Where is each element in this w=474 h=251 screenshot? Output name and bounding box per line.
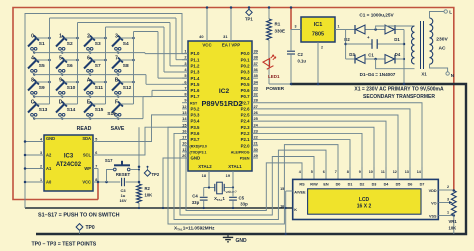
svg-text:R/W: R/W: [310, 182, 318, 186]
wire keypad row 4: [34, 97, 188, 119]
wire A/VEE to bottom bus: [285, 191, 287, 235]
node XTAL2: [204, 186, 215, 188]
svg-text:K: K: [294, 208, 297, 212]
svg-text:B: B: [115, 78, 119, 84]
svg-text:C5: C5: [239, 196, 245, 201]
wire S16 bottom contact to row 4: [116, 116, 119, 120]
wire S2 top contact to column 2: [64, 37, 78, 40]
svg-text:37: 37: [254, 61, 258, 66]
wire keypad row 2: [34, 75, 188, 85]
IC2 pin 27 P2.6: [241, 104, 258, 112]
wire S12 top contact to column 4: [120, 81, 134, 84]
svg-text:7: 7: [184, 85, 186, 90]
svg-text:TP1: TP1: [245, 17, 253, 22]
svg-text:S1–S17 = PUSH TO ON SWITCH: S1–S17 = PUSH TO ON SWITCH: [38, 212, 120, 218]
capacitor C3 1u 16V electrolytic: [119, 178, 139, 203]
svg-text:S15: S15: [95, 107, 104, 113]
IC2 pin 17 P3.7: [182, 135, 200, 143]
svg-text:S1: S1: [39, 41, 45, 47]
IC2 pin 14 P3.4: [182, 116, 200, 124]
svg-text:10: 10: [369, 170, 373, 174]
switch S3 push-to-on, key 2: [84, 34, 101, 51]
svg-text:S3: S3: [95, 41, 101, 47]
wire S4 top contact to column 4: [120, 37, 134, 40]
resistor R2 10K: [137, 184, 153, 209]
switch S9 push-to-on, key 8: [28, 78, 45, 95]
svg-text:S8: S8: [123, 63, 129, 69]
svg-text:6: 6: [323, 170, 325, 174]
IC2 pin 12 P3.2: [182, 104, 200, 112]
svg-text:12: 12: [393, 170, 397, 174]
svg-text:S12: S12: [123, 85, 132, 91]
svg-text:30: 30: [254, 147, 258, 152]
svg-text:16 X 2: 16 X 2: [357, 203, 372, 209]
svg-text:C1 = 1000u,25V: C1 = 1000u,25V: [359, 13, 394, 18]
wire bridge top row: [346, 28, 404, 31]
svg-text:GND: GND: [191, 156, 201, 161]
svg-text:SAVE: SAVE: [111, 126, 125, 132]
wire S10 bottom contact to row 3: [60, 94, 63, 98]
switch S10 push-to-on, key 9: [56, 78, 76, 95]
svg-text:GND: GND: [236, 238, 248, 244]
IC2 pin 25 P2.4: [241, 116, 259, 124]
switch S15 push-to-on, key E: [84, 100, 104, 117]
LCD pin 3 VO wire (wiper): [431, 198, 453, 206]
switch S5 push-to-on, key 4: [28, 56, 45, 73]
wire S5 top contact to column 1: [36, 59, 50, 62]
wire S8 bottom contact to row 2: [116, 72, 119, 76]
crystal XTAL1 11.0592MHz: [214, 182, 225, 202]
svg-text:C4: C4: [192, 193, 198, 198]
wire S13 top contact to column 1: [36, 103, 49, 105]
svg-text:(TXD)P3.1: (TXD)P3.1: [190, 150, 207, 154]
svg-text:D7: D7: [420, 182, 425, 186]
svg-text:2: 2: [447, 185, 449, 189]
wire keypad column 2 route to IC2: [78, 23, 189, 66]
capacitor C5 33p: [229, 188, 248, 210]
IC2 pin 38 P0.1: [241, 55, 259, 63]
wire S16 top contact to column 4: [120, 103, 133, 105]
IC2 pin 1 P1.0: [182, 49, 200, 57]
svg-text:9: 9: [359, 170, 361, 174]
wire S4 bottom contact to row 1: [116, 50, 119, 54]
svg-text:RS: RS: [299, 182, 305, 186]
svg-text:16: 16: [280, 205, 284, 209]
svg-text:L: L: [449, 10, 452, 15]
svg-text:P0.6: P0.6: [241, 88, 251, 93]
svg-text:P0.1: P0.1: [241, 57, 251, 62]
svg-text:READ: READ: [77, 126, 92, 132]
LCD pin 11 D4: [381, 167, 389, 186]
svg-text:9: 9: [59, 78, 62, 84]
svg-text:IC2: IC2: [219, 88, 230, 95]
IC2 pin 19 XTAL1: [226, 164, 243, 188]
svg-text:P2.7: P2.7: [241, 100, 251, 105]
svg-text:XTAL1: XTAL1: [228, 164, 242, 169]
label 230V AC: [436, 36, 448, 51]
wire keypad row 3: [34, 90, 188, 96]
LCD pin 15 A/VEE: [280, 187, 306, 195]
svg-text:3: 3: [295, 25, 297, 29]
test point TP0: [76, 224, 95, 234]
wire IC2 P2 port to LCD data pin x=362: [258, 133, 362, 179]
IC2 pin 2 P1.1: [182, 55, 200, 63]
svg-text:C2: C2: [298, 52, 304, 57]
svg-text:15: 15: [280, 187, 284, 191]
svg-text:C: C: [31, 100, 35, 106]
wire IC2 P3 port to LCD pin 7: [168, 127, 338, 224]
svg-text:10: 10: [182, 141, 186, 146]
svg-text:S16: S16: [107, 111, 116, 117]
svg-text:P2.4: P2.4: [241, 119, 251, 124]
wire S2 bottom contact to row 1: [60, 50, 63, 54]
switch S6 push-to-on, key 5: [56, 56, 73, 73]
svg-text:A/VEE: A/VEE: [294, 191, 306, 195]
svg-text:8: 8: [95, 178, 97, 182]
node XTAL1: [224, 186, 234, 188]
wire +5V red bus (top / left / right perimeter): [13, 8, 454, 200]
svg-text:VDD: VDD: [429, 189, 437, 193]
wire keypad row 1: [34, 53, 188, 54]
svg-text:EA / VPP: EA / VPP: [222, 43, 240, 48]
svg-text:A0: A0: [46, 180, 52, 185]
svg-text:4: 4: [31, 56, 34, 62]
wire bridge bottom row: [346, 58, 404, 61]
wire WP strap: [97, 169, 99, 183]
LCD pin 1 VSS wire: [429, 211, 455, 219]
diode D4 1N4007: [385, 52, 401, 64]
wire keypad column 1 vertical: [49, 18, 51, 104]
LCD pin 10 D3: [369, 167, 377, 186]
svg-text:11: 11: [381, 170, 385, 174]
IC2 pin 6 P1.5: [182, 79, 200, 87]
wire S3 top contact to column 3: [92, 37, 106, 40]
IC2 pin 36 P0.3: [241, 67, 259, 75]
wire S14 bottom contact to row 4: [60, 116, 63, 120]
svg-text:A: A: [87, 78, 91, 84]
svg-text:17: 17: [182, 135, 186, 140]
svg-text:F: F: [115, 100, 118, 106]
wire IC2 GND pin 20 to ground rail: [162, 158, 188, 209]
transformer X1 core: [421, 21, 424, 69]
wire S1 top contact to column 1: [36, 37, 50, 40]
switch S1 push-to-on, key 0: [28, 34, 45, 51]
svg-text:VCC: VCC: [202, 43, 212, 48]
svg-text:POWER: POWER: [266, 86, 285, 92]
IC2 pin 39 P0.0: [241, 49, 259, 57]
IC2 pin 5 P1.4: [182, 73, 200, 81]
LCD pin 7 D0: [335, 170, 341, 187]
svg-text:P1.7: P1.7: [191, 94, 201, 99]
svg-text:1: 1: [40, 178, 42, 182]
wire IC2 P2 port to LCD data pin x=386: [258, 121, 386, 179]
svg-text:P3.7: P3.7: [191, 137, 201, 142]
svg-text:P0.5: P0.5: [241, 82, 251, 87]
wire SCL to IC2: [98, 127, 188, 155]
svg-text:XTAL2: XTAL2: [198, 164, 212, 169]
resistor R1 330E: [267, 6, 285, 40]
IC1 pin 3 output: [290, 6, 301, 29]
IC3 pin 3 A2: [25, 151, 52, 158]
IC2 pin 18 XTAL2: [198, 164, 212, 188]
LCD pin 16 K: [280, 205, 297, 212]
wire keypad column 4 vertical: [133, 32, 135, 105]
svg-text:2: 2: [87, 34, 90, 40]
svg-text:R1: R1: [275, 22, 281, 27]
wire S8 top contact to column 4: [120, 59, 134, 62]
wire keypad column 2 vertical: [77, 23, 79, 105]
svg-text:EN: EN: [323, 182, 329, 186]
svg-text:(RXD)P3.0: (RXD)P3.0: [190, 144, 207, 148]
wire S6 bottom contact to row 2: [60, 72, 63, 76]
svg-text:A1: A1: [46, 166, 52, 171]
LCD pin 6 EN: [323, 170, 329, 187]
wire bridge right vertical DC-: [403, 30, 406, 86]
wire S10 top contact to column 2: [64, 81, 78, 84]
svg-text:S13: S13: [39, 107, 48, 113]
switch S17 RESET push-to-on: [105, 158, 131, 177]
wire S7 bottom contact to row 2: [88, 72, 91, 76]
wire S7 top contact to column 3: [92, 59, 106, 62]
svg-text:6: 6: [87, 56, 90, 62]
wire IC2 P3 port to LCD pin 5: [180, 140, 314, 215]
svg-text:SCL: SCL: [83, 153, 92, 158]
IC3 pin 2 A1: [25, 164, 52, 171]
IC2 pin 4 P1.3: [182, 67, 200, 75]
svg-text:A2: A2: [46, 153, 52, 158]
svg-text:P0.7: P0.7: [241, 94, 251, 99]
IC2 pin 32 P0.7: [241, 92, 259, 100]
svg-text:P1.3: P1.3: [191, 70, 201, 75]
IC3 pin 8 VCC: [82, 178, 98, 185]
svg-text:P3.5: P3.5: [191, 125, 201, 130]
svg-text:33p: 33p: [240, 202, 248, 207]
wire IC2 P3 port to LCD pin 4: [186, 146, 302, 211]
IC2 pin 34 P0.5: [241, 79, 259, 87]
IC2 pin 7 P1.6: [182, 85, 200, 93]
transformer X1 secondary winding: [412, 26, 415, 64]
wire S6 top contact to column 2: [64, 59, 78, 62]
capacitor C4 33p: [192, 188, 208, 210]
svg-text:S9: S9: [39, 85, 45, 91]
svg-text:S14: S14: [67, 107, 76, 113]
svg-text:P2.1: P2.1: [241, 137, 251, 142]
IC3 pin 1 A0: [25, 178, 52, 185]
wire AC2 bottom mid to secondary bottom: [376, 59, 415, 69]
IC2 pin 20 GND: [182, 153, 200, 161]
IC1 pin 2 ground: [317, 42, 323, 85]
test point TP1: [245, 6, 253, 21]
svg-text:S11: S11: [95, 85, 104, 91]
svg-text:GND: GND: [46, 136, 55, 141]
svg-text:0.1u: 0.1u: [298, 58, 307, 63]
svg-text:P1.1: P1.1: [191, 57, 201, 62]
svg-text:VCC: VCC: [82, 180, 91, 185]
svg-text:2: 2: [321, 46, 323, 50]
svg-text:P3.4: P3.4: [191, 119, 201, 124]
svg-text:D3: D3: [372, 182, 377, 186]
svg-text:D6: D6: [408, 182, 413, 186]
IC2 pin 11 (TXD)P3.1: [182, 147, 206, 155]
wire keypad column 1 route to IC2: [50, 18, 189, 60]
IC2 pin 33 P0.6: [241, 85, 259, 93]
svg-text:7: 7: [335, 170, 337, 174]
IC2 pin 22 P2.1: [241, 135, 259, 143]
svg-text:R2: R2: [145, 186, 151, 191]
LCD pin 5 R/W: [310, 170, 318, 187]
svg-text:P0.0: P0.0: [241, 51, 251, 56]
svg-text:SECONDARY TRANSFORMER: SECONDARY TRANSFORMER: [363, 94, 435, 100]
wire S1 bottom contact to row 1: [32, 50, 35, 54]
svg-text:8: 8: [347, 170, 349, 174]
svg-text:P1.2: P1.2: [191, 63, 201, 68]
svg-text:40: 40: [199, 34, 203, 39]
switch S12 push-to-on, key B: [112, 78, 132, 95]
IC2 pin 15 P3.5: [182, 122, 200, 130]
svg-text:WP: WP: [84, 166, 91, 171]
wire keypad column 3 route to IC2: [106, 27, 189, 72]
svg-text:P3.2: P3.2: [191, 106, 201, 111]
svg-text:RST: RST: [190, 101, 198, 105]
LCD pin 8 D1: [347, 167, 353, 186]
svg-text:3: 3: [447, 198, 449, 202]
test point TP2: [144, 166, 160, 177]
wire S9 top contact to column 1: [36, 81, 50, 84]
wire primary top to L terminal: [430, 10, 453, 18]
svg-text:TP0 – TP3 = TEST POINTS: TP0 – TP3 = TEST POINTS: [32, 242, 97, 248]
svg-text:5: 5: [95, 137, 97, 141]
IC2 pin 8 P1.7: [182, 92, 200, 100]
svg-text:7: 7: [95, 164, 97, 168]
svg-text:D1–D4 = 1N4007: D1–D4 = 1N4007: [360, 72, 396, 77]
IC2 pin 37 P0.2: [241, 61, 258, 69]
ground symbol: [223, 234, 247, 244]
svg-text:P3.6: P3.6: [191, 131, 201, 136]
LCD pin 9 D2: [359, 167, 365, 186]
svg-text:7805: 7805: [312, 31, 324, 37]
svg-text:LCD: LCD: [359, 197, 370, 203]
wire S15 top contact to column 3: [92, 103, 105, 105]
IC2 pin 28 P2.7: [241, 98, 259, 106]
svg-text:P2.5: P2.5: [241, 113, 251, 118]
svg-text:PSEN: PSEN: [240, 157, 250, 161]
svg-text:S7: S7: [95, 63, 101, 69]
IC2 pin 26 P2.5: [241, 110, 259, 118]
IC2 pin 9 RST: [182, 98, 198, 106]
wire S14 top contact to column 2: [64, 103, 77, 105]
IC3 pin 5 SDA: [82, 136, 98, 141]
svg-text:S4: S4: [123, 41, 129, 47]
switch S14 push-to-on, key D: [56, 100, 76, 117]
wire VCC to reset node: [97, 181, 120, 184]
wire S15 bottom contact to row 4: [88, 116, 91, 120]
svg-text:SDA: SDA: [82, 136, 91, 141]
svg-text:value?: value?: [226, 190, 237, 194]
op-amp U: IC3 AT24C02 eeprom body: [44, 135, 93, 191]
switch S11 push-to-on, key A: [84, 78, 103, 95]
IC2 pin 24 P2.3: [241, 122, 259, 130]
svg-text:AT24C02: AT24C02: [56, 162, 82, 168]
svg-text:5: 5: [311, 170, 313, 174]
svg-text:VO: VO: [431, 201, 437, 205]
IC2 pin 13 P3.3: [182, 110, 200, 118]
svg-text:VR1: VR1: [449, 219, 458, 224]
IC2 pin 31 EA/VPP: [222, 6, 240, 47]
regulator IC1 7805: [301, 17, 335, 42]
svg-text:S5: S5: [39, 63, 45, 69]
wire S5 bottom contact to row 2: [32, 72, 35, 76]
wire IC2 P2 port to LCD data pin x=350: [258, 140, 350, 180]
capacitor C2 0.1u: [287, 30, 306, 86]
svg-text:P2.0: P2.0: [241, 143, 251, 148]
wire IC2 P2 port to LCD data pin x=374: [258, 127, 374, 179]
svg-text:1: 1: [59, 34, 62, 40]
svg-text:2: 2: [40, 164, 42, 168]
svg-text:ALE/PROG: ALE/PROG: [231, 150, 250, 154]
LCD pin 13 D6: [405, 167, 413, 186]
wire IC2 P2 port to LCD data pin x=410: [258, 109, 410, 180]
svg-text:10K: 10K: [449, 226, 457, 231]
svg-text:33p: 33p: [192, 200, 200, 205]
svg-text:1: 1: [338, 25, 340, 29]
diode D2 1N4007: [344, 25, 365, 42]
svg-text:RESET: RESET: [116, 172, 131, 177]
svg-text:13: 13: [405, 170, 409, 174]
LCD pin 4 RS: [299, 170, 305, 187]
wire AC1 top mid to secondary top: [376, 26, 415, 30]
svg-text:P0.4: P0.4: [241, 76, 251, 81]
svg-text:3: 3: [40, 151, 42, 155]
svg-text:1: 1: [447, 211, 449, 215]
svg-text:S2: S2: [67, 41, 73, 47]
svg-text:D: D: [59, 100, 63, 106]
wire outer keypad route / left long vertical to ground rail: [25, 14, 182, 209]
svg-text:S6: S6: [67, 63, 73, 69]
svg-text:S17: S17: [105, 158, 113, 163]
svg-text:TP2: TP2: [152, 172, 160, 177]
IC2 pin 29 PSEN: [240, 153, 259, 161]
wire S17 right contact to reset node: [130, 169, 139, 171]
svg-text:P0.2: P0.2: [241, 63, 251, 68]
IC3 pin 6 SCL: [83, 151, 98, 158]
potentiometer VR1 10K: [449, 191, 458, 235]
svg-text:LED1: LED1: [268, 74, 280, 79]
svg-text:IC3: IC3: [64, 154, 74, 160]
svg-text:P1.4: P1.4: [191, 76, 201, 81]
IC2 pin 3 P1.2: [182, 61, 200, 69]
wire S17 left contact down to VCC node: [107, 170, 114, 183]
svg-text:P1.0: P1.0: [191, 51, 201, 56]
switch S7 push-to-on, key 6: [84, 56, 101, 73]
wire primary bottom to N terminal: [430, 64, 455, 78]
svg-text:6: 6: [95, 151, 97, 155]
svg-text:P3.3: P3.3: [191, 113, 201, 118]
IC2 pin 40 VCC: [199, 6, 212, 47]
svg-text:0: 0: [31, 34, 34, 40]
svg-text:330E: 330E: [275, 28, 286, 33]
IC3 pin 7 WP: [84, 164, 98, 171]
wire S12 bottom contact to row 3: [116, 94, 119, 98]
svg-text:P0.3: P0.3: [241, 70, 251, 75]
label X1 transformer note: [354, 86, 444, 100]
svg-text:5: 5: [59, 56, 62, 62]
svg-text:3: 3: [115, 34, 118, 40]
IC2 pin 16 P3.6: [182, 128, 200, 136]
wire reset node to IC2: [138, 127, 140, 130]
wire S11 top contact to column 3: [92, 81, 106, 84]
svg-text:TP0: TP0: [86, 225, 95, 231]
wire bridge left vertical DC+: [344, 30, 347, 60]
